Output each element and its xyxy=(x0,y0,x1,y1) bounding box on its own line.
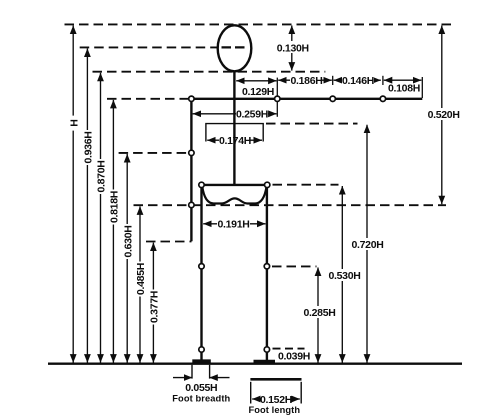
svg-text:0.039H: 0.039H xyxy=(278,350,310,362)
wrist tick xyxy=(382,76,384,85)
knee height arrow 0.285H xyxy=(317,268,319,363)
foot length arrow left 0.152H xyxy=(252,398,260,400)
svg-text:0.530H: 0.530H xyxy=(328,270,360,282)
svg-text:Foot length: Foot length xyxy=(248,405,300,415)
forearm dimension line 0.146H xyxy=(334,79,381,81)
left leg xyxy=(200,186,202,361)
dashed leader from right knee (0.285H) xyxy=(272,265,317,267)
chest width arrow left 0.174H xyxy=(207,139,219,141)
label 0.130H xyxy=(275,41,310,53)
svg-text:0.146H: 0.146H xyxy=(342,75,374,87)
label 0.936H xyxy=(83,130,94,165)
label 0.630H xyxy=(123,224,134,259)
svg-text:0.285H: 0.285H xyxy=(303,307,335,319)
foot length arrow right 0.152H xyxy=(292,398,300,400)
hand dimension line 0.108H xyxy=(384,79,422,81)
pelvis top line xyxy=(202,184,268,186)
chest height arrow 0.720H xyxy=(366,125,368,363)
right foot xyxy=(254,360,276,363)
svg-text:0.630H: 0.630H xyxy=(122,225,134,257)
label 0.818H xyxy=(109,190,120,225)
foot length reference line xyxy=(250,378,301,381)
dashed leader from right hip (0.530H) xyxy=(273,184,339,186)
chin height arrow 0.870H xyxy=(100,73,102,363)
head-height arrow 0.130H xyxy=(291,26,293,71)
left foot xyxy=(192,359,211,362)
svg-text:0.259H: 0.259H xyxy=(236,109,268,121)
label 0.285H xyxy=(302,306,335,318)
svg-text:0.720H: 0.720H xyxy=(351,239,383,251)
svg-text:0.186H: 0.186H xyxy=(290,75,322,87)
head-to-crotch arrow 0.520H xyxy=(441,26,443,205)
ground line xyxy=(48,363,462,365)
dashed leader to left elbow (0.630H) xyxy=(119,152,189,154)
upper-arm dimension line 0.129H xyxy=(236,80,276,82)
shoulder tick xyxy=(276,78,278,117)
dashed leader from right ankle (0.039H) xyxy=(273,348,305,350)
hip height arrow 0.530H xyxy=(341,186,343,363)
right wrist joint xyxy=(380,96,385,101)
svg-text:0.129H: 0.129H xyxy=(242,86,274,98)
shoulder and extended right arm xyxy=(191,98,422,100)
right shoulder joint xyxy=(275,96,280,101)
left knee joint xyxy=(199,264,204,269)
svg-text:H: H xyxy=(68,119,80,126)
label 0.720H xyxy=(350,238,383,250)
svg-text:0.520H: 0.520H xyxy=(428,109,460,121)
dashed level line H (stature, top of head) xyxy=(65,23,455,25)
label 0.039H xyxy=(278,351,311,362)
left ankle joint xyxy=(199,347,204,352)
elbow tick xyxy=(332,76,334,85)
chest bracket top xyxy=(206,124,263,142)
foot breadth tick left xyxy=(191,365,193,379)
label 0.146H xyxy=(342,75,374,86)
elbow height arrow 0.630H xyxy=(126,154,128,363)
eye-level dashes inside head xyxy=(222,46,247,48)
wrist height arrow 0.485H xyxy=(139,206,141,362)
pelvis bowl outline xyxy=(202,187,266,204)
left wrist joint xyxy=(189,202,194,207)
hip breadth dimension line 0.191H xyxy=(203,223,265,225)
head xyxy=(218,25,252,71)
svg-text:0.818H: 0.818H xyxy=(109,191,121,223)
label 0.485H xyxy=(135,262,146,297)
fingertip height arrow 0.377H xyxy=(152,243,154,363)
right hip joint xyxy=(265,182,270,187)
label 0.520H xyxy=(427,108,460,120)
dashed leader to left shoulder (0.818H) xyxy=(107,98,188,100)
label 0.530H xyxy=(327,269,360,281)
svg-text:0.130H: 0.130H xyxy=(277,43,309,55)
fingertip tick xyxy=(421,77,423,98)
svg-text:0.174H: 0.174H xyxy=(219,135,251,147)
left elbow joint xyxy=(189,150,194,155)
label 0.377H xyxy=(149,290,160,325)
upper-arm dimension line 0.186H xyxy=(278,79,332,81)
eye height arrow 0.936H xyxy=(86,49,88,363)
shoulder height arrow 0.818H xyxy=(112,100,114,363)
svg-text:0.055H: 0.055H xyxy=(185,382,217,394)
right leg xyxy=(266,186,268,361)
foot breadth arrow left 0.055H xyxy=(173,377,192,379)
foot length bracket left xyxy=(250,382,252,404)
right knee joint xyxy=(264,264,269,269)
foot breadth tick right xyxy=(209,365,211,379)
svg-text:Foot breadth: Foot breadth xyxy=(172,393,230,403)
dashed level line 0.870H (chin level) xyxy=(93,71,326,73)
label 0.259H xyxy=(236,108,268,119)
svg-text:0.377H: 0.377H xyxy=(149,291,161,323)
label 0.191H xyxy=(217,218,250,229)
hanging left arm xyxy=(190,99,192,242)
label H xyxy=(69,116,80,131)
stature arrow H xyxy=(72,26,74,363)
right ankle joint xyxy=(264,347,269,352)
svg-text:0.870H: 0.870H xyxy=(96,160,108,192)
dashed crotch/wrist level line (0.485H / 0.520H bottom) xyxy=(134,204,447,206)
dashed level line 0.936H (eye level) xyxy=(80,46,218,48)
dashed chest-top line to 0.720H arrow xyxy=(266,123,358,125)
shoulder breadth dimension line 0.259H xyxy=(193,113,277,115)
foot breadth arrow right 0.055H xyxy=(209,377,229,379)
foot length bracket right xyxy=(300,382,302,404)
dashed leader to left fingertip (0.377H) xyxy=(146,241,192,243)
svg-text:0.108H: 0.108H xyxy=(388,83,420,95)
trunk xyxy=(233,71,235,186)
label 0.186H xyxy=(290,75,322,86)
svg-text:0.191H: 0.191H xyxy=(217,219,249,231)
label 0.870H xyxy=(96,159,107,194)
right elbow joint xyxy=(330,96,335,101)
left hip joint xyxy=(199,182,204,187)
chest width arrow right 0.174H xyxy=(251,139,263,141)
svg-text:0.936H: 0.936H xyxy=(83,131,95,163)
svg-text:0.485H: 0.485H xyxy=(135,263,147,295)
left shoulder joint xyxy=(189,96,194,101)
